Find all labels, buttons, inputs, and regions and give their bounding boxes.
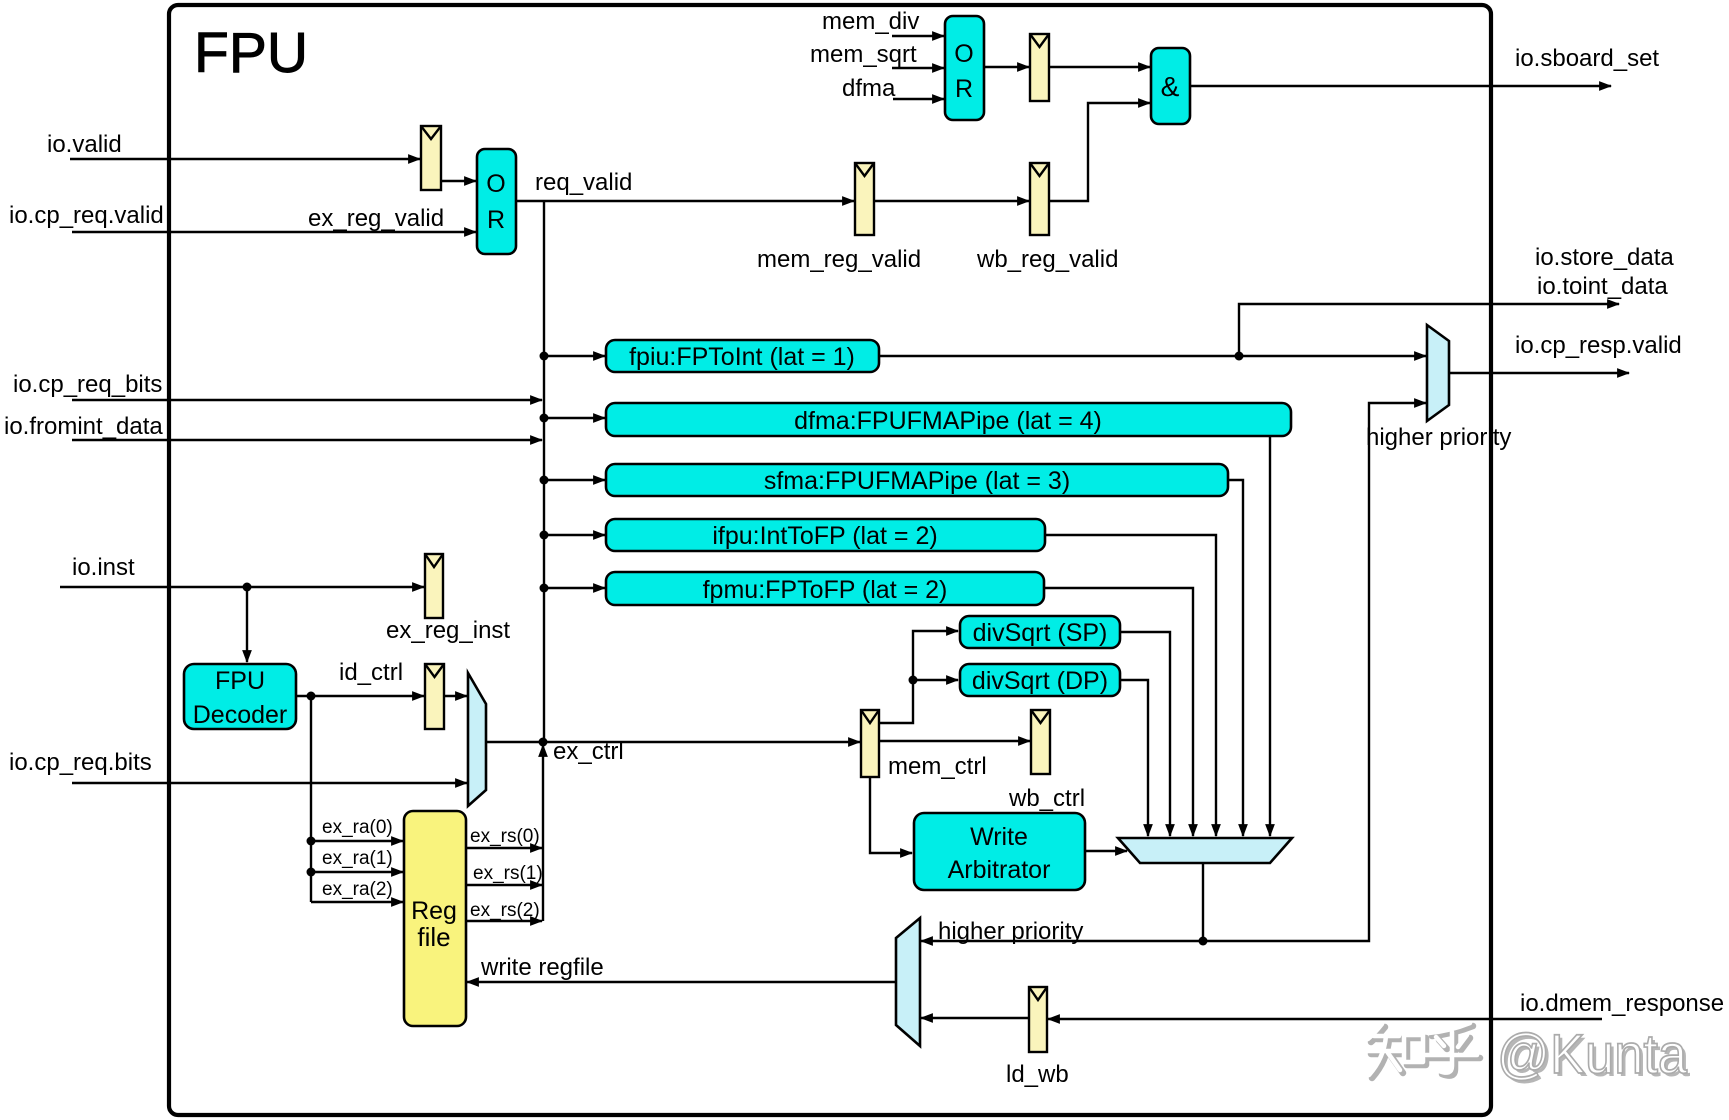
or-gate OR2 [945,16,984,120]
mux ex_ctrl [468,673,486,806]
svg-text:Decoder: Decoder [193,701,288,729]
svg-text:io.fromint_data: io.fromint_data [4,413,163,440]
wire io.cp_req_bits [13,371,542,400]
divSqrt (SP) block [960,616,1120,648]
wire ex_ra(1) [307,848,404,877]
sfma:FPUFMAPipe block [606,464,1228,496]
wire ex_ctrl to mem_ctrl [486,738,860,766]
svg-text:@Kunta: @Kunta [1497,1022,1688,1085]
svg-text:R: R [487,206,505,234]
svg-text:O: O [954,40,973,68]
svg-text:ex_ra(0): ex_ra(0) [322,817,393,838]
wire mem_ctrl down to write arbitrator [870,777,912,853]
svg-text:Arbitrator: Arbitrator [948,856,1051,884]
register ex_reg_valid (io.valid reg) [421,126,441,190]
svg-text:ifpu:IntToFP (lat = 2): ifpu:IntToFP (lat = 2) [712,522,937,550]
wire io.inst [60,554,424,592]
wire dfma output [1269,436,1271,836]
wire io.cp_req.bits [9,749,467,783]
mux write-back (wide) [1118,838,1292,863]
svg-text:Write: Write [970,823,1028,851]
svg-text:ex_rs(0): ex_rs(0) [470,826,540,847]
svg-text:divSqrt (SP): divSqrt (SP) [973,619,1108,647]
dfma:FPUFMAPipe block [606,403,1291,436]
wire decoder to id_ctrl reg [296,659,424,701]
wire ifpu output [1045,535,1216,836]
Write Arbitrator block [914,813,1085,890]
svg-text:io.cp_req.valid: io.cp_req.valid [9,202,164,229]
mux write regfile [896,918,920,1046]
svg-text:io.dmem_response: io.dmem_response [1520,990,1724,1017]
wire vertical bus [543,201,545,742]
wire req_valid OR1 to mem_reg_valid [516,169,854,201]
node wb out [1199,937,1208,946]
svg-text:wb_ctrl: wb_ctrl [1008,785,1085,812]
divSqrt (DP) block [960,664,1120,696]
wire write regfile [467,954,896,982]
svg-text:mem_sqrt: mem_sqrt [810,41,917,68]
svg-text:fpmu:FPToFP (lat = 2): fpmu:FPToFP (lat = 2) [703,576,948,604]
svg-text:ex_reg_inst: ex_reg_inst [386,617,510,644]
svg-text:ex_ra(1): ex_ra(1) [322,848,393,869]
wire ex_ra(2) [311,879,403,902]
wire mem_ctrl to wb_ctrl [879,740,1030,742]
svg-text:higher priority: higher priority [938,918,1083,945]
wire mem_ctrl up to divSqrt [879,631,958,723]
register ld_wb [1006,987,1069,1088]
wire ex_rs(2) [466,900,542,921]
svg-text:FPU: FPU [215,667,265,695]
register mem_ctrl [861,710,987,780]
svg-text:higher priority: higher priority [1366,424,1511,451]
wire write arbitrator to wb mux [1085,850,1127,852]
svg-text:dfma:FPUFMAPipe (lat = 4): dfma:FPUFMAPipe (lat = 4) [794,407,1102,435]
wire mem_reg_valid to wb_reg_valid [874,200,1029,202]
svg-text:ex_reg_valid: ex_reg_valid [308,205,444,232]
node fpiu input [540,352,606,361]
wire id_ctrl reg to mux [444,695,467,697]
wire dfma [842,75,944,102]
svg-text:io.cp_req.bits: io.cp_req.bits [9,749,152,776]
wire fpiu output to mux [879,352,1426,361]
ifpu:IntToFP block [606,519,1045,551]
svg-text:dfma: dfma [842,75,896,102]
svg-text:fpiu:FPToInt (lat = 1): fpiu:FPToInt (lat = 1) [629,343,855,371]
svg-text:ex_ra(2): ex_ra(2) [322,879,393,900]
FPU outer boundary box [169,5,1491,1115]
svg-text:R: R [955,75,973,103]
wire OR2 to reg [984,66,1029,68]
svg-text:Reg: Reg [411,897,457,925]
register wb_ctrl [1008,710,1085,812]
wire io.cp_resp.valid [1449,332,1682,373]
svg-text:file: file [417,922,450,952]
wire io.dmem_response [1048,990,1724,1019]
wire ex_rs(1) [466,863,543,885]
wire sfma output [1228,480,1243,836]
node ifpu input [540,531,606,540]
svg-text:FPU: FPU [194,21,308,85]
register wb_reg_valid [976,163,1118,273]
wire ex_ra(0) [307,817,404,846]
svg-text:divSqrt (DP): divSqrt (DP) [972,667,1108,695]
Reg file block [404,811,466,1026]
wire io.sboard_set [1190,45,1659,86]
register mem_reg_valid [757,163,921,273]
svg-text:io.cp_req_bits: io.cp_req_bits [13,371,162,398]
wire io.store_data / io.toint_data [1239,244,1674,356]
wire wb out to write mux (higher priority) [921,918,1203,945]
svg-text:wb_reg_valid: wb_reg_valid [976,246,1118,273]
wire decoder down to reg file addresses [310,696,312,902]
or-gate OR1 [477,149,516,254]
wire reg to OR1 [441,180,476,182]
node dfma input [540,414,606,423]
fpiu:FPToInt block [606,340,879,372]
svg-text:io.inst: io.inst [72,554,135,581]
wire io.inst to decoder [246,587,248,662]
register id_ctrl [425,664,444,729]
wire io.cp_req.valid / ex_reg_valid [9,202,476,232]
svg-text:io.toint_data: io.toint_data [1537,273,1668,300]
svg-text:io.valid: io.valid [47,131,122,158]
svg-text:io.sboard_set: io.sboard_set [1515,45,1659,72]
wire reg to AND [1049,66,1150,68]
wire mem_sqrt [810,41,944,68]
wire ld_wb to write mux [921,1017,1029,1019]
svg-text:io.cp_resp.valid: io.cp_resp.valid [1515,332,1682,359]
svg-text:mem_ctrl: mem_ctrl [888,753,987,780]
wire divSqrt SP output [1120,632,1170,836]
register after OR2 [1030,34,1049,101]
svg-text:ex_ctrl: ex_ctrl [553,738,624,765]
svg-text:id_ctrl: id_ctrl [339,659,403,686]
svg-text:ex_rs(2): ex_rs(2) [470,900,540,921]
and-gate [1151,48,1190,124]
wire mem_div [822,8,944,36]
svg-text:&: & [1161,71,1180,102]
svg-text:ex_rs(1): ex_rs(1) [473,863,543,884]
mux resp (higher priority) [1366,325,1511,451]
svg-text:mem_div: mem_div [822,8,919,35]
FPU Decoder block [184,664,296,729]
wire io.fromint_data [4,413,542,440]
node fpmu input [540,584,606,593]
node sfma input [540,476,606,485]
wire wb mux output down [1202,863,1204,941]
wire ex_rs bus up to ex_ctrl [542,745,544,921]
svg-text:ld_wb: ld_wb [1006,1061,1069,1088]
svg-text:O: O [486,170,505,198]
wire ex_rs(0) [466,826,542,848]
wire io.valid [47,131,420,159]
wire wb_reg_valid to AND [1049,103,1150,201]
svg-text:io.store_data: io.store_data [1535,244,1674,271]
svg-text:write regfile: write regfile [480,954,604,981]
svg-text:req_valid: req_valid [535,169,632,196]
fpmu:FPToFP block [606,572,1044,605]
svg-text:sfma:FPUFMAPipe (lat = 3): sfma:FPUFMAPipe (lat = 3) [764,467,1070,495]
wire wb out to resp mux [1203,403,1426,941]
register ex_reg_inst [386,554,510,644]
wire divSqrt DP output [1120,680,1148,836]
wire fpmu output [1044,588,1193,836]
svg-text:mem_reg_valid: mem_reg_valid [757,246,921,273]
